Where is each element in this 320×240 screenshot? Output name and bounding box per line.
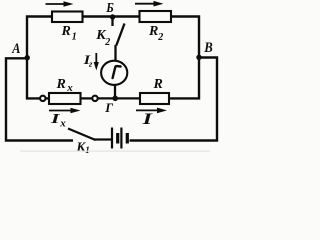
battery cell 2 long plate — [120, 128, 122, 149]
svg-text:2: 2 — [104, 37, 110, 48]
wire: Rx box to right terminal — [81, 97, 93, 99]
wire: K1 to battery — [94, 138, 111, 140]
switch K1 blade (open) at bottom rail — [68, 129, 96, 141]
svg-text:1: 1 — [72, 32, 77, 43]
current arrow I_g (down) — [94, 53, 99, 71]
terminal circle left of Rx — [40, 96, 45, 101]
galvanometer letter Г — [113, 66, 121, 78]
svg-text:2: 2 — [157, 32, 163, 43]
current arrow I_x — [49, 108, 81, 114]
terminal circle right of Rx — [92, 96, 97, 101]
svg-text:В: В — [203, 40, 212, 56]
svg-text:Б: Б — [105, 0, 113, 15]
switch K2 blade (open) — [116, 24, 124, 46]
svg-text:R: R — [61, 24, 71, 39]
svg-text:1: 1 — [85, 145, 90, 153]
node B (В) right — [196, 55, 201, 60]
wire: left inner vertical from A down to Rx branch — [27, 58, 40, 99]
node G (Г) dot — [112, 96, 118, 102]
switch K2: stub from node Б — [111, 18, 113, 26]
svg-text:Г: Г — [104, 100, 113, 115]
svg-text:x: x — [66, 82, 73, 94]
node B (Б) top middle — [110, 14, 115, 19]
node A — [25, 55, 30, 60]
svg-text:x: x — [59, 117, 66, 129]
battery cell 2 short plate — [126, 133, 129, 144]
svg-text:I: I — [141, 111, 153, 128]
galvanometer G circle — [101, 61, 127, 85]
svg-text:R: R — [148, 24, 158, 39]
current arrow over R2 — [135, 1, 164, 7]
wire: left terminal to Rx box — [45, 97, 49, 99]
svg-text:А: А — [11, 40, 20, 56]
wire: blade to galvanometer — [114, 45, 116, 61]
battery cell 1 short plate — [116, 133, 119, 144]
wire: A to left outer rail, down to bottom rail start — [6, 58, 73, 140]
wire: B to right outer rail, down to bottom rail end — [130, 58, 218, 141]
resistor R box — [140, 93, 169, 104]
svg-text:R: R — [56, 77, 66, 92]
resistor R2 box — [140, 11, 172, 22]
current arrow over R1 — [46, 1, 74, 7]
wire: top rail from top-left corner to top-right corner — [27, 17, 199, 58]
battery cell 1 long plate — [111, 128, 113, 149]
wire: right terminal through node G to R box — [98, 97, 140, 99]
svg-text:R: R — [153, 77, 163, 92]
wire: galvanometer bottom to node G — [114, 85, 116, 98]
current arrow I — [136, 108, 167, 114]
resistor R1 box — [52, 12, 83, 23]
wire: right inner vertical from B down to R branch — [169, 58, 199, 99]
resistor Rx box — [49, 93, 81, 104]
svg-text:I: I — [50, 111, 61, 126]
scan artifact: faint bottom streak — [20, 151, 210, 152]
